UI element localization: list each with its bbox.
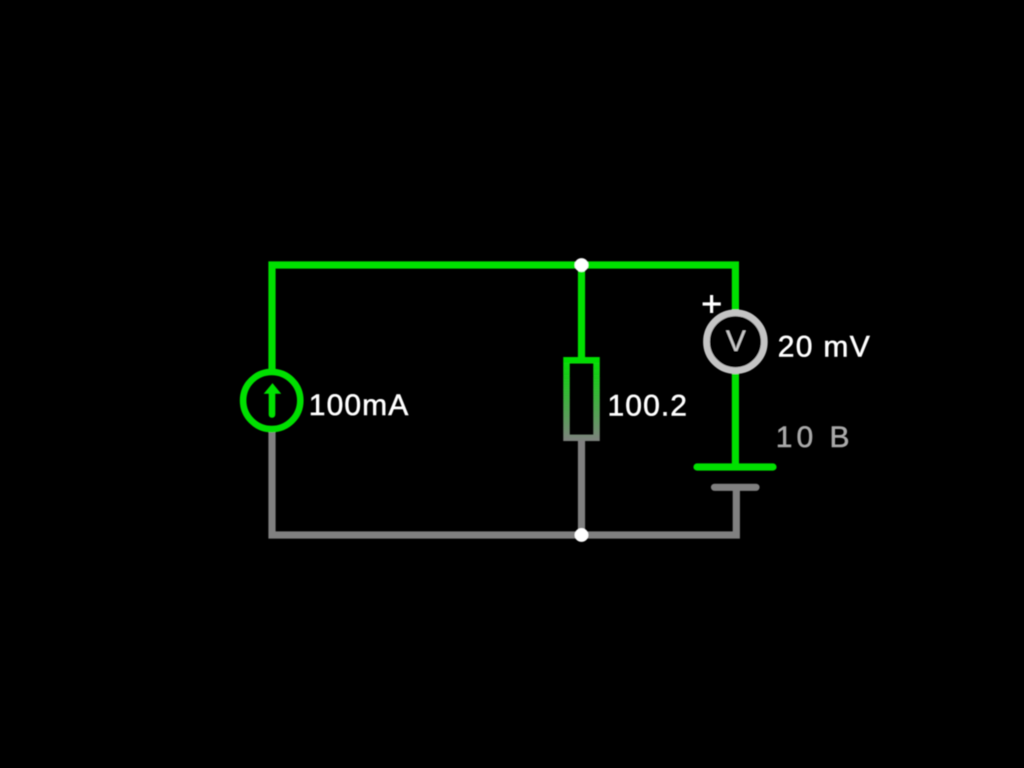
plus sign bbox=[703, 302, 721, 305]
wire bottom rail bbox=[272, 429, 736, 535]
wire resistor top branch bbox=[578, 265, 585, 361]
svg-text:V: V bbox=[726, 325, 746, 358]
wire top rail bbox=[272, 265, 735, 372]
node B bottom bbox=[575, 528, 589, 542]
svg-text:20 mV: 20 mV bbox=[778, 331, 871, 364]
voltmeter U1 bbox=[707, 313, 765, 371]
battery B1 positive plate bbox=[697, 463, 773, 470]
node A top bbox=[575, 258, 589, 272]
svg-text:10 B: 10 B bbox=[776, 421, 854, 454]
resistor R1 bbox=[567, 360, 597, 438]
current source I1 bbox=[243, 372, 300, 429]
svg-text:100mA: 100mA bbox=[309, 389, 410, 422]
wire voltmeter to battery bbox=[732, 371, 739, 467]
wire resistor bottom branch bbox=[578, 439, 585, 535]
battery B1 negative plate bbox=[715, 484, 757, 491]
current source arrow bbox=[269, 392, 276, 415]
svg-text:100.2: 100.2 bbox=[608, 389, 689, 422]
